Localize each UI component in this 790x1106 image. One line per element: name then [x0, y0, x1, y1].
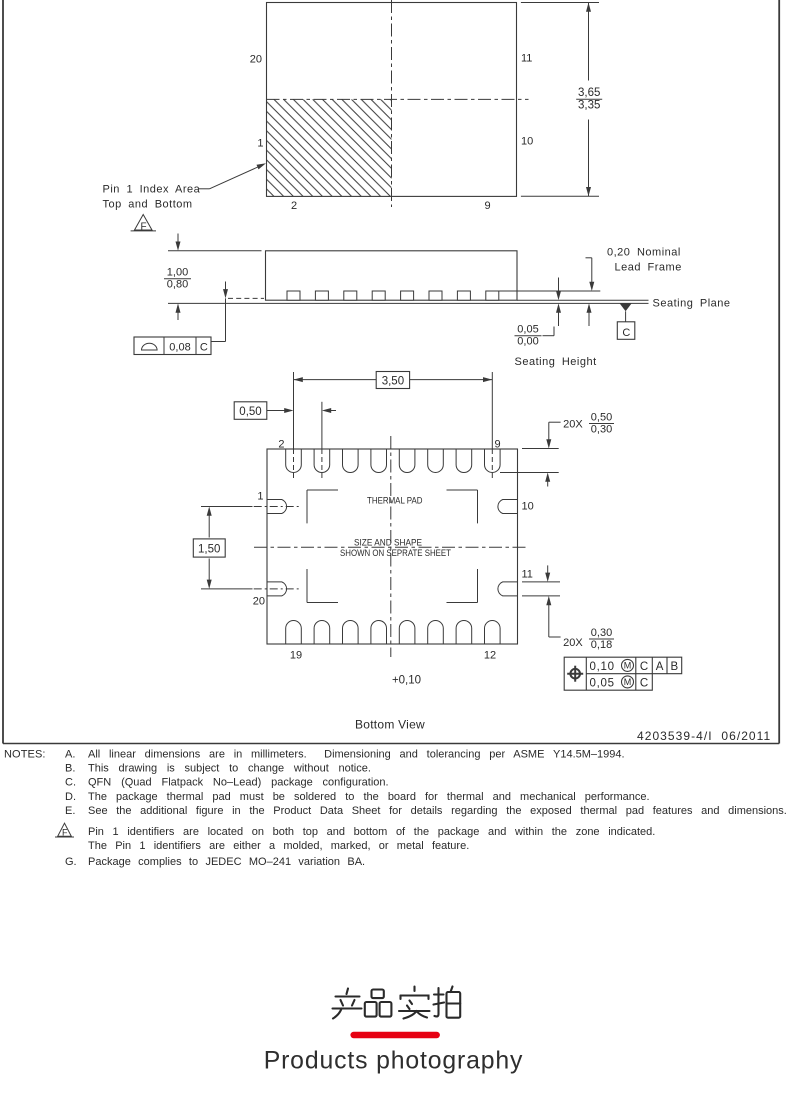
top view vertical centerline [391, 0, 393, 207]
dimension 1,00/0,80 arrows [177, 234, 179, 245]
svg-text:19: 19 [290, 650, 302, 662]
seating height arrows [558, 278, 560, 293]
svg-text:Seating Height: Seating Height [515, 356, 597, 368]
dimension 0,50 arrows [267, 410, 285, 412]
svg-text:20X: 20X [563, 637, 583, 649]
dimension 3,50 extension pin2 [293, 372, 295, 440]
pin 9 centerline [491, 430, 493, 449]
svg-text:0,30: 0,30 [591, 424, 612, 436]
page border bottom [3, 743, 779, 745]
character 实 [413, 987, 415, 992]
svg-text:Products photography: Products photography [264, 1048, 524, 1075]
svg-text:A: A [656, 661, 664, 673]
svg-text:G.: G. [65, 856, 77, 868]
svg-text:C: C [622, 327, 630, 339]
svg-text:SIZE AND SHAPE: SIZE AND SHAPE [354, 537, 422, 547]
bottom view right pins (10, 11) [498, 500, 518, 514]
flatness control frame 0,08 C [134, 337, 211, 355]
bracket 20X 0,30/0,18 [549, 636, 561, 638]
datum flag F (top) [135, 215, 153, 231]
thermal pad corner bottom-left [307, 602, 338, 604]
dimension 1,50 extension lines [201, 506, 253, 508]
svg-text:F: F [141, 221, 147, 232]
side view body [266, 251, 518, 300]
svg-text:+0,10: +0,10 [392, 675, 421, 687]
svg-text:See the additional figure in t: See the additional figure in the Product… [88, 805, 787, 817]
svg-text:NOTES:: NOTES: [4, 749, 46, 761]
side view leads [287, 291, 300, 300]
svg-text:0,10: 0,10 [590, 661, 615, 673]
page border right [778, 0, 780, 744]
bottom view package outline [267, 449, 518, 644]
svg-text:The Pin 1 identifiers are eith: The Pin 1 identifiers are either a molde… [88, 840, 469, 852]
svg-text:F: F [62, 827, 68, 837]
svg-text:10: 10 [522, 501, 534, 513]
svg-text:Bottom View: Bottom View [355, 718, 425, 732]
lead frame thickness arrow [588, 311, 590, 326]
svg-text:Seating Plane: Seating Plane [653, 298, 731, 310]
svg-text:0,08: 0,08 [169, 342, 190, 354]
svg-text:Package complies to JEDEC MO–2: Package complies to JEDEC MO–241 variati… [88, 856, 365, 868]
datum C flag [620, 303, 632, 311]
dimension 1,50 line [208, 509, 210, 538]
character 拍 [435, 988, 439, 1016]
svg-text:This drawing is subject to cha: This drawing is subject to change withou… [88, 763, 371, 775]
svg-text:2: 2 [291, 200, 297, 212]
svg-text:0,50: 0,50 [591, 411, 612, 423]
svg-text:0,80: 0,80 [167, 279, 188, 291]
svg-text:3,65: 3,65 [578, 87, 600, 99]
0,05 leader [543, 335, 555, 337]
bottom view bottom row pins (19-12) [286, 621, 302, 644]
hidden package bottom dashed line [228, 297, 264, 299]
dimension arrows pin11 width [547, 565, 549, 575]
character 产 [347, 989, 349, 995]
svg-text:C: C [640, 678, 648, 690]
dimension lines pin9 length [522, 448, 559, 450]
svg-text:C: C [640, 661, 648, 673]
dimension 3,50 extension pin9 [491, 372, 493, 430]
svg-text:B.: B. [65, 763, 75, 775]
bottom view horizontal centerline [254, 546, 528, 548]
svg-text:2: 2 [278, 438, 284, 450]
svg-text:A.: A. [65, 749, 75, 761]
seating plane line [168, 302, 649, 304]
svg-text:All linear dimensions are in m: All linear dimensions are in millimeters… [88, 749, 625, 761]
arrow to package bottom [225, 282, 227, 292]
svg-text:QFN (Quad Flatpack No–Lead) pa: QFN (Quad Flatpack No–Lead) package conf… [88, 777, 389, 789]
package bottom line extension [517, 299, 649, 301]
svg-text:1,50: 1,50 [198, 544, 220, 556]
svg-text:Top and Bottom: Top and Bottom [103, 199, 193, 211]
svg-text:9: 9 [484, 200, 490, 212]
0,20 leader [586, 257, 592, 259]
pin 20 centerline [254, 588, 300, 590]
thermal pad corner top-left [307, 489, 338, 491]
svg-text:20: 20 [253, 596, 265, 608]
svg-text:Pin 1 identifiers are located: Pin 1 identifiers are located on both to… [88, 826, 655, 838]
pin 1 centerline [254, 506, 300, 508]
position symbol [570, 669, 580, 679]
svg-text:B: B [670, 661, 678, 673]
dimension 3,65/3,35 line [588, 3, 590, 81]
lead frame top reference line [496, 290, 601, 292]
thermal pad corner top-right [447, 489, 478, 491]
bottom view left pins (1, 20) [267, 500, 287, 514]
page border left [2, 0, 4, 744]
svg-text:1: 1 [257, 491, 263, 503]
svg-text:0,05: 0,05 [517, 324, 538, 336]
svg-text:C: C [200, 342, 208, 354]
svg-text:9: 9 [495, 438, 501, 450]
position tolerance frame [564, 657, 682, 690]
svg-text:Lead Frame: Lead Frame [615, 262, 682, 274]
svg-text:0,50: 0,50 [239, 406, 261, 418]
svg-text:0,18: 0,18 [591, 639, 612, 651]
thermal pad corner bottom-right [447, 602, 478, 604]
svg-text:M: M [624, 661, 632, 671]
dimension box 3,50 [376, 372, 409, 389]
pin 1 index hatch area [267, 99, 392, 196]
dimension 0,50 extension pin3 [321, 402, 323, 430]
svg-text:20X: 20X [563, 419, 583, 431]
red underline bar [350, 1032, 440, 1038]
pin 2 centerline [293, 440, 295, 449]
svg-text:11: 11 [521, 53, 532, 65]
dimension 3,50 line [294, 379, 493, 381]
svg-text:Pin 1 Index Area: Pin 1 Index Area [103, 184, 201, 196]
pin 3 centerline [321, 430, 323, 449]
dimension box 1,50 [193, 539, 225, 557]
svg-text:1: 1 [257, 138, 263, 150]
svg-text:20: 20 [250, 54, 262, 66]
svg-text:D.: D. [65, 791, 76, 803]
top view horizontal centerline [267, 98, 529, 100]
svg-text:1,00: 1,00 [167, 267, 188, 279]
dimension 3,65/3,35 extension lines [521, 2, 599, 4]
svg-text:THERMAL PAD: THERMAL PAD [367, 496, 423, 506]
svg-text:E.: E. [65, 805, 75, 817]
side view top extension line [168, 250, 262, 252]
svg-text:0,05: 0,05 [590, 678, 615, 690]
svg-text:10: 10 [521, 136, 533, 148]
flatness frame leader [225, 298, 227, 341]
bottom view top row pins (2-9) [286, 449, 302, 472]
svg-text:M: M [624, 677, 632, 687]
top view package outline [267, 3, 517, 197]
svg-text:The package thermal pad must b: The package thermal pad must be soldered… [88, 791, 650, 803]
svg-text:SHOWN ON SEPRATE SHEET: SHOWN ON SEPRATE SHEET [340, 548, 451, 558]
svg-text:3,35: 3,35 [578, 100, 600, 112]
svg-text:0,20 Nominal: 0,20 Nominal [607, 247, 681, 259]
dimension arrows pin9 length [548, 422, 550, 442]
bottom view vertical centerline [390, 436, 392, 657]
svg-text:C.: C. [65, 777, 76, 789]
svg-text:3,50: 3,50 [382, 375, 404, 387]
svg-text:11: 11 [522, 569, 533, 581]
pin 1 index leader [199, 188, 210, 190]
character 品 [372, 990, 384, 999]
dimension box 0,50 [234, 402, 267, 420]
dimension lines pin11 width [522, 581, 560, 583]
svg-text:12: 12 [484, 650, 496, 662]
svg-text:0,30: 0,30 [591, 627, 612, 639]
bracket 20X 0,50/0,30 [549, 421, 561, 423]
svg-text:0,00: 0,00 [517, 336, 538, 348]
svg-text:4203539-4/I 06/2011: 4203539-4/I 06/2011 [637, 729, 771, 743]
